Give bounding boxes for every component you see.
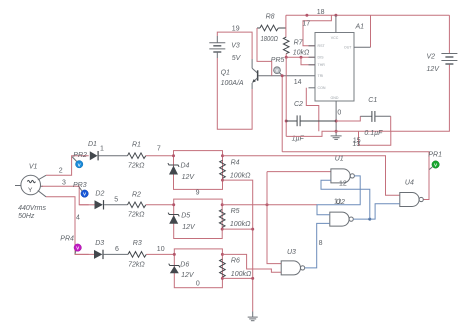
svg-text:PR4: PR4 — [60, 235, 74, 242]
svg-text:5V: 5V — [232, 55, 242, 62]
wire TRI net down to output net — [281, 76, 283, 152]
probe PR1 — [429, 161, 439, 170]
svg-text:2: 2 — [59, 168, 63, 175]
zener D5 — [168, 213, 179, 224]
wire V3 minus to Q1 emitter — [217, 58, 252, 129]
svg-text:R6: R6 — [231, 257, 240, 264]
svg-text:12V: 12V — [182, 224, 196, 231]
resistor R7 — [283, 37, 289, 54]
ground symbol at IC — [331, 136, 342, 140]
svg-text:OUT: OUT — [344, 46, 352, 50]
svg-text:R3: R3 — [133, 240, 142, 247]
junction U2 output — [368, 218, 371, 221]
wire RST jog net 17 — [303, 15, 331, 46]
svg-text:V: V — [276, 68, 279, 73]
svg-text:R7: R7 — [294, 40, 304, 47]
probe PR3 — [79, 187, 88, 197]
top rail net 18 — [286, 14, 450, 16]
wire C1 right to V2 minus — [375, 115, 391, 117]
wire R6 bottom to ground bus — [222, 277, 252, 279]
wire node 9 to box D5 — [146, 204, 174, 206]
three-phase source V1 — [15, 175, 46, 197]
svg-text:17: 17 — [302, 21, 310, 28]
svg-text:10kΩ: 10kΩ — [293, 49, 310, 56]
svg-text:PR5: PR5 — [271, 57, 285, 64]
junction VCC rail — [305, 14, 308, 17]
svg-text:TRI: TRI — [318, 74, 324, 78]
svg-text:100kΩ: 100kΩ — [230, 173, 251, 180]
ground symbol bottom — [248, 312, 258, 321]
diode D1 — [90, 151, 128, 160]
wire R8 right / R7 top to VCC rail — [285, 15, 287, 37]
blue wire U2 output node — [353, 218, 370, 220]
svg-text:PR3: PR3 — [73, 182, 87, 189]
svg-text:Y: Y — [28, 187, 33, 194]
svg-text:CON: CON — [318, 86, 326, 90]
wire node 7 to box D4 — [146, 155, 174, 157]
svg-text:R8: R8 — [266, 14, 275, 21]
junction DIS — [285, 56, 288, 59]
zener D6 — [169, 264, 180, 274]
svg-text:R5: R5 — [231, 208, 240, 215]
svg-text:PR1: PR1 — [428, 151, 442, 158]
wire net 9 to U1 top input — [267, 171, 331, 173]
resistor R6 — [220, 259, 226, 277]
svg-text:D1: D1 — [88, 141, 97, 148]
box loop D5/R5 — [174, 199, 223, 238]
resistor R3 — [128, 252, 146, 258]
NAND gate U4 — [400, 193, 424, 207]
wire R6 top to U3 lower input — [222, 254, 281, 272]
svg-text:C1: C1 — [368, 97, 377, 104]
resistor R1 — [128, 153, 146, 159]
wire D4 bottom to ground bus — [223, 180, 253, 311]
wire CON pin down — [306, 88, 319, 131]
svg-text:DIS: DIS — [318, 56, 325, 60]
svg-text:D3: D3 — [95, 240, 104, 247]
wire OUT pin drop — [370, 15, 372, 47]
node dots D6 box — [173, 253, 176, 256]
wire D5 bottom to ground bus — [222, 228, 253, 230]
svg-text:GND: GND — [331, 96, 339, 100]
svg-text:0: 0 — [196, 280, 200, 287]
wire R8 left to Q1 base — [257, 28, 272, 76]
svg-text:R2: R2 — [132, 191, 141, 198]
svg-text:72kΩ: 72kΩ — [128, 261, 145, 268]
wire V3 plus to Q1 collector — [217, 32, 252, 59]
svg-text:440Vrms: 440Vrms — [18, 205, 46, 212]
svg-text:72kΩ: 72kΩ — [128, 211, 145, 218]
wire D3 anode lead — [75, 253, 94, 255]
probe PR5 — [274, 67, 283, 76]
junction ground bus lower — [251, 277, 254, 280]
svg-text:RST: RST — [318, 44, 326, 48]
svg-text:12V: 12V — [181, 272, 195, 279]
svg-text:5: 5 — [114, 197, 118, 204]
capacitor C2 — [286, 115, 336, 126]
wire THR jog — [301, 57, 315, 65]
wire net 0 to C1 — [336, 116, 360, 121]
svg-text:R4: R4 — [231, 159, 240, 166]
svg-text:U4: U4 — [405, 180, 414, 187]
svg-text:THR: THR — [318, 63, 326, 67]
svg-text:V1: V1 — [29, 164, 38, 171]
wire DIS node down to C2 — [285, 57, 287, 136]
IC A1 timer — [309, 15, 371, 136]
svg-text:V3: V3 — [231, 42, 240, 49]
resistor R5 — [219, 209, 225, 227]
svg-text:19: 19 — [232, 25, 240, 32]
svg-text:VCC: VCC — [331, 36, 339, 40]
svg-text:D4: D4 — [181, 163, 190, 170]
junction GND stem / C2 — [335, 120, 338, 123]
wire D4 top to U4 input (net 7) — [223, 156, 400, 196]
svg-text:13: 13 — [352, 141, 360, 148]
svg-text:9: 9 — [196, 189, 200, 196]
wire D2 anode lead — [79, 204, 94, 206]
wire D5 top to U2 input (net 9) — [222, 204, 317, 206]
diode D3 — [94, 250, 128, 259]
blue wire U2 out to U4 lower input — [370, 204, 400, 219]
box loop D4/R4 — [174, 151, 223, 190]
svg-text:12V: 12V — [427, 66, 441, 73]
svg-text:12: 12 — [339, 180, 347, 187]
svg-text:Q1: Q1 — [221, 70, 230, 77]
resistor R2 — [128, 202, 146, 208]
resistor R8 — [257, 25, 286, 31]
blue wire U1 output to U2 top input — [317, 176, 360, 215]
wire U4 output to PR1 and TRI net — [282, 152, 429, 200]
NAND gate U3 — [281, 261, 305, 275]
NAND gate U1 — [331, 169, 355, 183]
diode D2 — [95, 200, 128, 209]
blue wire U3 output to U2 lower input (net 8) — [305, 223, 330, 268]
svg-text:1800Ω: 1800Ω — [261, 36, 279, 43]
wire node 10 to box D6 — [146, 253, 174, 255]
svg-text:100A/A: 100A/A — [221, 80, 244, 87]
node dots D5 box — [172, 203, 175, 206]
wire net 2 — [46, 156, 89, 176]
svg-text:A1: A1 — [355, 23, 365, 30]
zener D4 — [168, 163, 179, 174]
svg-text:100kΩ: 100kΩ — [230, 221, 251, 228]
svg-text:10: 10 — [157, 246, 165, 253]
svg-text:7: 7 — [157, 145, 161, 152]
node dots D4 box — [172, 154, 175, 157]
svg-text:14: 14 — [294, 79, 302, 86]
wire C2 value loop — [286, 131, 391, 136]
wire net 4 — [46, 197, 89, 255]
svg-text:D2: D2 — [95, 190, 104, 197]
battery V2 — [441, 15, 457, 64]
capacitor C1 — [372, 111, 375, 122]
probe PR2 — [72, 157, 83, 168]
svg-text:D5: D5 — [181, 212, 190, 219]
blue wire feedback U2 out to U1 lower input — [321, 180, 370, 219]
svg-text:V2: V2 — [427, 54, 436, 61]
svg-text:72kΩ: 72kΩ — [128, 162, 145, 169]
svg-text:U1: U1 — [335, 155, 344, 162]
box loop D6/R6 — [174, 249, 222, 288]
svg-text:1: 1 — [100, 146, 104, 153]
NAND gate U2 — [330, 212, 354, 226]
svg-text:12V: 12V — [182, 174, 196, 181]
svg-text:U3: U3 — [287, 249, 296, 256]
svg-text:0.1µF: 0.1µF — [364, 130, 383, 137]
svg-text:PR2: PR2 — [73, 152, 87, 159]
svg-text:18: 18 — [317, 9, 325, 16]
svg-text:8: 8 — [319, 240, 323, 247]
svg-text:4: 4 — [76, 214, 80, 221]
transistor Q1 — [252, 59, 315, 89]
svg-text:C2: C2 — [294, 101, 303, 108]
svg-text:50Hz: 50Hz — [18, 213, 35, 220]
svg-text:3: 3 — [62, 180, 66, 187]
resistor R4 — [220, 160, 226, 178]
svg-text:R1: R1 — [132, 141, 141, 148]
wire net 9 bus to U1 input — [267, 172, 281, 264]
svg-text:0: 0 — [337, 110, 341, 117]
svg-text:D6: D6 — [180, 262, 189, 269]
battery V3 — [209, 36, 225, 58]
wire net 13 loop — [359, 131, 391, 145]
junction ground bus — [251, 228, 254, 231]
svg-text:100kΩ: 100kΩ — [231, 271, 252, 278]
junction net 9 — [266, 203, 269, 206]
svg-text:6: 6 — [115, 246, 119, 253]
wire net 3 — [42, 186, 89, 205]
wire R7 bottom / DIS pin — [286, 54, 315, 58]
junction TRI base — [281, 74, 284, 77]
probe PR4 — [74, 244, 81, 254]
